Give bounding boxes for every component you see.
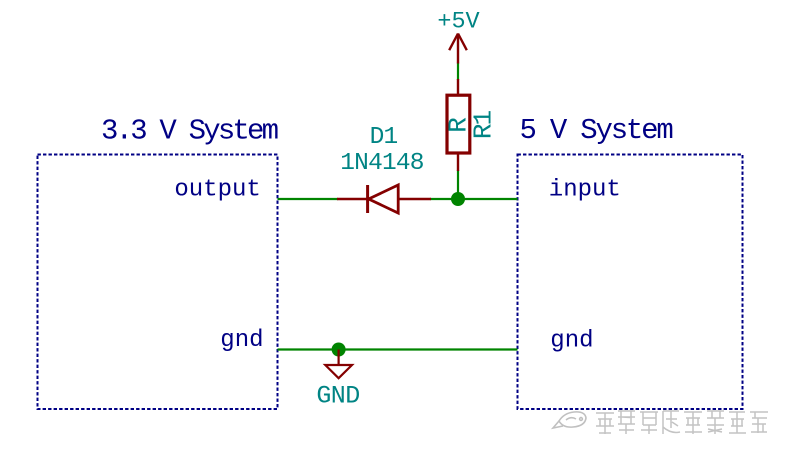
junction dot (top, at resistor/diode/input) — [451, 192, 465, 206]
resistor R1 body — [447, 95, 470, 153]
box 5V system (dashed) — [518, 155, 743, 410]
wire: diode to junction to input (top, right green segment) — [430, 198, 518, 200]
svg-text:GND: GND — [316, 381, 359, 410]
svg-text:3.3 V System: 3.3 V System — [101, 114, 278, 147]
box 3.3V system (dashed) — [38, 155, 278, 410]
svg-text:1N4148: 1N4148 — [340, 150, 424, 177]
watermark characters — [596, 411, 768, 434]
diode D1 pins — [337, 198, 368, 200]
svg-text:input: input — [549, 177, 621, 204]
wire: gnd bottom horizontal — [278, 348, 518, 350]
diode D1 triangle — [369, 185, 399, 213]
wire: +5V symbol to resistor (vertical green) — [457, 63, 459, 80]
svg-text:gnd: gnd — [550, 328, 593, 355]
svg-text:+5V: +5V — [437, 8, 479, 35]
svg-text:output: output — [174, 176, 260, 203]
ground symbol GND — [325, 350, 352, 379]
resistor R1 pins — [457, 79, 459, 95]
wire: output to diode (top, left green segment) — [278, 198, 339, 200]
power symbol +5V (arrow) — [449, 34, 467, 64]
wire: resistor to junction (vertical green) — [457, 170, 459, 199]
diode D1 cathode bar — [366, 185, 369, 213]
watermark (faint logo + characters) — [553, 412, 586, 428]
svg-text:D1: D1 — [370, 124, 398, 151]
svg-text:5 V System: 5 V System — [520, 114, 673, 147]
junction dot (bottom, gnd) — [332, 343, 346, 357]
svg-text:R1: R1 — [468, 111, 498, 140]
svg-text:gnd: gnd — [220, 327, 263, 354]
